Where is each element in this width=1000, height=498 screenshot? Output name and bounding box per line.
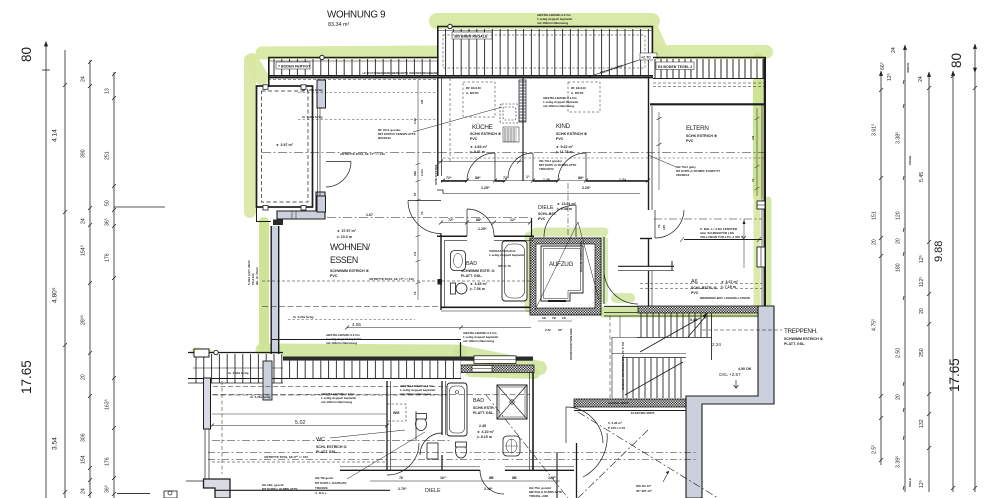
svg-text:1D: 1D xyxy=(562,316,567,320)
svg-text:DIELE: DIELE xyxy=(538,205,554,211)
svg-text:24: 24 xyxy=(81,488,87,494)
svg-text:16⁴: 16⁴ xyxy=(440,476,446,480)
vertical dim chain x=418 xyxy=(416,80,421,300)
corridor mid thin line y=193.5 xyxy=(443,193,640,195)
svg-text:1M: 1M xyxy=(751,135,755,140)
toilet upper xyxy=(451,283,456,294)
svg-text:PVC: PVC xyxy=(686,139,694,143)
door wohnen from corridor xyxy=(408,200,441,202)
svg-text:mit 100mm Dämmung: mit 100mm Dämmung xyxy=(463,339,494,343)
svg-text:MT KOPF-L KARKATE: MT KOPF-L KARKATE xyxy=(315,481,347,485)
svg-text:ANBTE: ANBTE xyxy=(906,63,910,73)
svg-text:SPÜLKASTEN: SPÜLKASTEN xyxy=(433,165,438,185)
svg-text:ORDINA-UNTERSCHETE PF P. PD: ORDINA-UNTERSCHETE PF P. PD xyxy=(621,341,625,390)
svg-text:7b: 7b xyxy=(413,291,417,295)
svg-text:1.36: 1.36 xyxy=(543,178,550,182)
svg-text:3.61⁵: 3.61⁵ xyxy=(872,124,878,136)
svg-text:mit 100mm Dämmung: mit 100mm Dämmung xyxy=(400,392,431,396)
svg-text:24: 24 xyxy=(81,218,87,224)
dim row y481 xyxy=(370,480,560,482)
svg-text:4.75⁵: 4.75⁵ xyxy=(872,319,878,331)
svg-text:8B: 8B xyxy=(489,476,494,480)
svg-text:► 9.62 m²: ► 9.62 m² xyxy=(556,145,574,149)
svg-text:2.29⁵: 2.29⁵ xyxy=(582,186,591,190)
svg-text:176: 176 xyxy=(105,253,111,262)
green top-center strip xyxy=(437,13,652,29)
svg-text:▷ 8.15 m: ▷ 8.15 m xyxy=(476,435,492,439)
left dim line col2 xyxy=(64,50,66,498)
svg-text:1.25⁶: 1.25⁶ xyxy=(478,227,487,231)
svg-text:VOLLZIEHN TÜR-LTG. # 005 ③: VOLLZIEHN TÜR-LTG. # 005 ③ xyxy=(700,234,744,239)
svg-text:5.02: 5.02 xyxy=(295,420,306,426)
df window labels xyxy=(463,82,495,117)
svg-text:I► 3.00a fertig: I► 3.00a fertig xyxy=(250,395,271,399)
landing wall checkered y=400 xyxy=(574,399,687,407)
green strip right of aufzug to treppenhaus xyxy=(604,307,762,318)
door eltern->ab xyxy=(654,210,656,238)
svg-text:163⁵: 163⁵ xyxy=(105,399,111,410)
svg-text:► 4.83 m²: ► 4.83 m² xyxy=(470,145,488,149)
svg-text:24: 24 xyxy=(81,76,87,82)
svg-text:SCHK ESTR.: SCHK ESTR. xyxy=(473,406,495,410)
svg-text:4.14: 4.14 xyxy=(52,129,59,142)
svg-text:7B: 7B xyxy=(552,316,557,320)
svg-text:36⁵: 36⁵ xyxy=(105,485,111,493)
vertical dashed x222 xyxy=(221,381,223,474)
svg-text:GB 7M geshr: GB 7M geshr xyxy=(315,476,334,480)
svg-text:DIELE: DIELE xyxy=(425,488,441,494)
dashed levels lower apartment xyxy=(212,395,530,463)
bad walls upper xyxy=(441,218,533,311)
svg-text:SCHL.BST.: SCHL.BST. xyxy=(538,212,557,216)
svg-text:AUFZUG: AUFZUG xyxy=(549,261,573,268)
washing machine xyxy=(387,404,406,421)
green top-right strip xyxy=(656,45,766,59)
svg-text:PLATT. GSL.: PLATT. GSL. xyxy=(473,411,494,415)
svg-text:I► 3.20a fertig: I► 3.20a fertig xyxy=(293,315,314,319)
svg-text:7 BODEN FERTIGT: 7 BODEN FERTIGT xyxy=(278,65,311,69)
wall kitchen/kind x=523 xyxy=(522,78,524,181)
svg-text:2.26: 2.26 xyxy=(413,118,417,124)
svg-text:12⁵: 12⁵ xyxy=(919,255,925,263)
svg-text:132: 132 xyxy=(919,419,925,428)
south wall living y=339/357 xyxy=(271,339,461,341)
svg-text:72⁵: 72⁵ xyxy=(448,218,454,222)
svg-text:CKL +2.57: CKL +2.57 xyxy=(719,372,741,377)
treppenhaus top wall checkered y=307 xyxy=(638,306,758,313)
svg-text:9.88: 9.88 xyxy=(933,241,945,262)
svg-text:ANTRITTE 35/31, 18•17⁰ == 010: ANTRITTE 35/31, 18•17⁰ == 010 xyxy=(264,455,308,459)
svg-text:▷ 11.78 m: ▷ 11.78 m xyxy=(555,150,573,154)
dashed under strip xyxy=(268,79,437,81)
lower balcony strip xyxy=(188,349,465,400)
svg-text:20: 20 xyxy=(872,239,878,245)
svg-text:154: 154 xyxy=(81,455,87,464)
wall segment right of aufzug xyxy=(603,237,605,270)
svg-text:PVC: PVC xyxy=(538,217,546,221)
svg-text:mit 100mm Dämmung: mit 100mm Dämmung xyxy=(326,341,357,345)
green left balcony edge xyxy=(244,60,256,212)
svg-text:TREPPENH.: TREPPENH. xyxy=(784,328,818,335)
svg-text:1B: 1B xyxy=(542,316,547,320)
cistern square xyxy=(427,443,438,459)
svg-text:160/90/12: 160/90/12 xyxy=(676,173,690,177)
svg-text:1.25⁶: 1.25⁶ xyxy=(481,186,490,190)
post circle xyxy=(320,55,324,59)
kueche fixtures xyxy=(500,104,519,142)
small offshoot line xyxy=(114,206,165,208)
door kind 1 xyxy=(532,153,534,181)
svg-text:180: 180 xyxy=(896,263,902,272)
svg-text:► 3.45 m²: ► 3.45 m² xyxy=(470,282,488,286)
step down wall x=461 xyxy=(460,342,462,357)
svg-text:66⁵: 66⁵ xyxy=(880,62,886,70)
dimension row corridor y=177 xyxy=(446,175,626,190)
bottom wall y=490 xyxy=(215,489,390,491)
ticks xyxy=(63,60,116,496)
svg-text:SCHK ESTRICH ④: SCHK ESTRICH ④ xyxy=(470,131,502,136)
svg-text:4.80⁵: 4.80⁵ xyxy=(52,287,59,303)
svg-text:50: 50 xyxy=(413,192,417,196)
green around AUFZUG xyxy=(525,236,534,308)
window symbols east wall xyxy=(757,201,765,209)
svg-text:24: 24 xyxy=(891,47,897,53)
svg-text:12⁹: 12⁹ xyxy=(510,218,516,222)
svg-text:112⁵: 112⁵ xyxy=(919,277,925,287)
svg-text:▷ 9.48 m: ▷ 9.48 m xyxy=(556,207,572,211)
window in south wall xyxy=(474,356,516,364)
svg-text:20: 20 xyxy=(81,374,87,380)
svg-text:SCHK ESTRICH ④: SCHK ESTRICH ④ xyxy=(556,131,588,136)
svg-text:151: 151 xyxy=(872,211,878,220)
svg-text:80: 80 xyxy=(949,53,964,68)
svg-text:72⁵: 72⁵ xyxy=(446,176,452,180)
svg-text:390: 390 xyxy=(81,149,87,158)
svg-text:A. ROTO: A. ROTO xyxy=(466,91,479,95)
terrace strip top-center xyxy=(437,24,657,78)
svg-text:+2.70 FUSSBODENOBERKANTE GRENZ: +2.70 FUSSBODENOBERKANTE GRENZE WOHNANLA… xyxy=(362,71,445,75)
svg-text:17.65: 17.65 xyxy=(19,360,34,394)
svg-text:ANTRITTE 35/31, 18• 17⁰ == 010: ANTRITTE 35/31, 18• 17⁰ == 010 xyxy=(369,277,414,281)
svg-text:PVC: PVC xyxy=(556,137,564,141)
svg-text:SCHK ESTRICH ④: SCHK ESTRICH ④ xyxy=(686,133,718,138)
second diagonal xyxy=(578,430,648,498)
svg-text:TRO/30/72: TRO/30/72 xyxy=(539,167,554,171)
svg-text:176: 176 xyxy=(105,457,111,466)
svg-text:PLATT. GSL.: PLATT. GSL. xyxy=(784,342,805,346)
svg-text:+2.TC: +2.TC xyxy=(641,56,651,60)
svg-text:ELTERN: ELTERN xyxy=(686,125,709,132)
svg-text:DF 94x140: DF 94x140 xyxy=(571,86,586,90)
small fixture bottom-left xyxy=(164,491,177,498)
svg-text:83.34 m²: 83.34 m² xyxy=(328,22,349,28)
svg-text:WOHNUNG 9: WOHNUNG 9 xyxy=(327,10,385,21)
svg-text:mit 100mm Dämmung: mit 100mm Dämmung xyxy=(543,104,574,108)
svg-text:PVC: PVC xyxy=(330,274,338,278)
svg-text:1.67: 1.67 xyxy=(366,213,373,217)
corridor bottom wall y=236 xyxy=(437,235,534,237)
svg-text:20: 20 xyxy=(896,238,902,244)
svg-text:KICHE: KICHE xyxy=(908,156,912,165)
svg-text:P 316 o 2.45: P 316 o 2.45 xyxy=(608,426,625,430)
svg-text:E3 BODEN TEGEL 2: E3 BODEN TEGEL 2 xyxy=(658,65,692,69)
svg-text:mit 100mm Dämmung: mit 100mm Dämmung xyxy=(321,400,352,404)
svg-text:BO/30/12: BO/30/12 xyxy=(378,136,391,140)
svg-text:5.48: 5.48 xyxy=(690,318,697,322)
svg-text:50: 50 xyxy=(105,200,111,206)
green bottom of living xyxy=(262,350,460,351)
dim 5.02 line xyxy=(212,425,387,427)
svg-text:MT KOPP-L RUMPLATTE: MT KOPP-L RUMPLATTE xyxy=(262,487,298,491)
svg-text:20: 20 xyxy=(896,394,902,400)
svg-text:4.90 OK: 4.90 OK xyxy=(738,367,752,371)
svg-text:ESSEN: ESSEN xyxy=(330,255,358,265)
svg-text:2.2m: 2.2m xyxy=(420,169,424,176)
svg-text:► 37.97 m²: ► 37.97 m² xyxy=(337,229,357,233)
balcony top-left xyxy=(257,85,313,210)
eltern annotations xyxy=(648,155,676,167)
svg-text:18b: 18b xyxy=(413,171,417,176)
svg-text:7b: 7b xyxy=(657,224,661,228)
svg-text:WM: WM xyxy=(393,411,399,415)
left dim line 17.65 xyxy=(45,42,47,498)
double dash-dot section line xyxy=(208,452,698,454)
diagonal annotation in strip xyxy=(585,57,648,78)
eltern south wall y=239.5 xyxy=(680,219,762,268)
svg-text:88⁶: 88⁶ xyxy=(475,176,481,180)
svg-text:88⁶: 88⁶ xyxy=(578,176,584,180)
svg-text:24: 24 xyxy=(918,76,924,82)
svg-text:2.19⁵: 2.19⁵ xyxy=(484,487,493,491)
svg-text:I► 3.20a fertig: I► 3.20a fertig xyxy=(302,115,323,119)
svg-text:KÜCHE: KÜCHE xyxy=(472,123,493,131)
stairs upper flight xyxy=(637,313,712,360)
svg-text:► 3L0 s: ► 3L0 s xyxy=(315,491,327,495)
toilet lower xyxy=(456,444,467,458)
long diagonal line bottom xyxy=(578,412,718,498)
door kind 2 xyxy=(585,153,587,181)
green top-left strip xyxy=(262,52,437,53)
svg-text:5.45: 5.45 xyxy=(919,172,925,182)
north wall right y=104 xyxy=(650,103,766,105)
svg-text:13: 13 xyxy=(105,88,111,94)
wall above lower bad (checkered) xyxy=(461,365,534,373)
svg-text:30⁵ WS 10⁵: 30⁵ WS 10⁵ xyxy=(636,489,653,493)
svg-text:► 13.61 m²: ► 13.61 m² xyxy=(557,202,577,206)
svg-text:80: 80 xyxy=(19,47,34,62)
svg-text:251: 251 xyxy=(105,151,111,160)
svg-text:2.32: 2.32 xyxy=(545,328,551,332)
corridor top wall y=181 xyxy=(441,180,648,182)
shaft ladder strip in kitchen/kind wall xyxy=(519,80,526,122)
svg-text:7b: 7b xyxy=(420,211,424,215)
svg-text:SCHL ESTRICH ①: SCHL ESTRICH ① xyxy=(316,444,347,449)
svg-text:HEIZKO-VERT.: HEIZKO-VERT. xyxy=(608,401,629,405)
svg-text:ELEKTRO-VERT.: ELEKTRO-VERT. xyxy=(631,411,655,415)
leader ge29 xyxy=(347,432,425,479)
svg-text:NACHE ENMEDELNG: NACHE ENMEDELNG xyxy=(579,241,583,272)
svg-text:A. ROTO: A. ROTO xyxy=(571,91,584,95)
dimension row 2 y=228 xyxy=(448,218,516,231)
north wall main y=77 xyxy=(268,76,653,78)
svg-text:5- 2.96 m²: 5- 2.96 m² xyxy=(608,421,622,425)
svg-text:BAD: BAD xyxy=(473,398,484,404)
svg-text:I► 3.20a fertig: I► 3.20a fertig xyxy=(302,88,323,92)
svg-text:▷ 7.06 m: ▷ 7.06 m xyxy=(469,287,485,291)
wall y=470 xyxy=(340,469,480,471)
svg-text:154⁵: 154⁵ xyxy=(81,245,87,256)
lower apartment interior walls xyxy=(215,372,574,490)
svg-text:306: 306 xyxy=(81,433,87,442)
svg-text:TRO30a +038: TRO30a +038 xyxy=(529,494,548,498)
svg-text:20: 20 xyxy=(919,308,925,314)
toilet wc xyxy=(416,418,427,431)
gray section wall right (stairwell) xyxy=(686,306,774,498)
svg-text:SW H: 7b: SW H: 7b xyxy=(498,264,511,268)
svg-text:KIND: KIND xyxy=(556,123,571,130)
wall pieces right of balcony xyxy=(317,80,326,108)
svg-text:▷ 19.3 m: ▷ 19.3 m xyxy=(336,235,352,239)
svg-text:1.34: 1.34 xyxy=(619,178,626,182)
svg-text:7b: 7b xyxy=(751,178,755,182)
svg-text:2.5⁵: 2.5⁵ xyxy=(872,445,878,454)
svg-text:PLATT. GSL.: PLATT. GSL. xyxy=(461,274,482,278)
sink lower xyxy=(503,436,520,456)
stairs lower flight xyxy=(623,357,686,398)
svg-text:22⁹: 22⁹ xyxy=(558,328,563,332)
left dim col4 xyxy=(113,72,115,498)
svg-text:17.65: 17.65 xyxy=(947,358,962,392)
sink upper xyxy=(451,251,466,271)
wall wc west x=387 xyxy=(386,381,388,470)
svg-text:TRO30/G: TRO30/G xyxy=(315,486,329,490)
svg-text:DF 94x140: DF 94x140 xyxy=(466,86,481,90)
svg-text:120: 120 xyxy=(896,211,902,220)
bathtub upper xyxy=(502,241,527,301)
svg-text:▷ 9.81 m: ▷ 9.81 m xyxy=(469,150,485,154)
svg-text:1M: 1M xyxy=(420,99,424,104)
svg-text:1 seitig doppelt beplankt: 1 seitig doppelt beplankt xyxy=(489,253,524,257)
svg-text:KONSTRUKTION-OBK: KONSTRUKTION-OBK xyxy=(569,327,573,360)
svg-text:WS 30/ 10⁵: WS 30/ 10⁵ xyxy=(636,484,652,488)
svg-text:3.54: 3.54 xyxy=(52,437,59,450)
svg-text:BAD: BAD xyxy=(466,261,477,267)
svg-text:SCHL.BSTR. ④: SCHL.BSTR. ④ xyxy=(691,285,718,290)
svg-text:► 4.10 m²: ► 4.10 m² xyxy=(477,430,495,434)
svg-text:► 3.97 m²: ► 3.97 m² xyxy=(276,143,294,147)
bathtub lower xyxy=(447,383,467,436)
svg-text:1⁵: 1⁵ xyxy=(526,175,530,179)
green right wall xyxy=(753,58,763,196)
svg-text:3.38⁵: 3.38⁵ xyxy=(896,132,902,144)
west wall of living xyxy=(257,205,279,357)
door arc diele->treppenh area xyxy=(604,270,638,304)
left dim col3 xyxy=(89,60,91,498)
svg-text:12⁵: 12⁵ xyxy=(887,73,893,81)
svg-text:WOHNEN/: WOHNEN/ xyxy=(330,242,371,252)
svg-text:mit 100mm Dämmung: mit 100mm Dämmung xyxy=(537,21,568,25)
svg-text:2.79⁵: 2.79⁵ xyxy=(398,487,407,491)
wall bad east x=533 xyxy=(532,372,534,470)
svg-text:2.24: 2.24 xyxy=(712,342,721,347)
stair landing area lines xyxy=(610,316,702,470)
svg-text:ANTRITTE 35/31, 18• 17⁰ == 010: ANTRITTE 35/31, 18• 17⁰ == 010 xyxy=(340,152,385,156)
svg-text:HE. d= 30cm: HE. d= 30cm xyxy=(255,267,259,285)
svg-text:SCHWIMM ESTR. ①: SCHWIMM ESTR. ① xyxy=(461,268,496,273)
svg-text:4.55: 4.55 xyxy=(352,322,361,327)
wall wc/bad x=442 xyxy=(441,381,443,435)
shower lower (dark square) xyxy=(497,385,527,419)
vertical text left wall xyxy=(247,165,666,285)
svg-text:SCHWIMM ESTRICH ④: SCHWIMM ESTRICH ④ xyxy=(330,268,370,273)
svg-text:36⁵: 36⁵ xyxy=(105,218,111,226)
svg-text:I► 3.00a fertig: I► 3.00a fertig xyxy=(228,371,249,375)
svg-text:PVC: PVC xyxy=(691,291,699,295)
svg-text:2.50: 2.50 xyxy=(896,348,902,358)
svg-text:2.45: 2.45 xyxy=(479,424,486,428)
4.55 dim row wohnen xyxy=(347,327,531,329)
interior wall kitchen west x=439 xyxy=(438,78,442,176)
L-wall below balcony (gray) xyxy=(273,80,351,225)
door bad upper xyxy=(466,209,468,236)
svg-text:3.39⁵: 3.39⁵ xyxy=(896,456,902,468)
terrace strip top-right xyxy=(653,58,766,87)
svg-text:NIEDERBO-BST. LEGEND-LAYBOK: NIEDERBO-BST. LEGEND-LAYBOK xyxy=(700,296,751,300)
svg-text:WC: WC xyxy=(316,437,325,443)
treppenhaus label xyxy=(702,328,824,346)
svg-text:12⁵: 12⁵ xyxy=(919,480,925,488)
svg-text:76: 76 xyxy=(399,476,403,480)
wall ab bottom partial xyxy=(618,265,674,267)
svg-text:PVC: PVC xyxy=(470,137,478,141)
svg-text:SCHWIMM ESTRICH ①: SCHWIMM ESTRICH ① xyxy=(784,336,824,341)
aufzug shaft xyxy=(530,222,601,315)
door arcs lower xyxy=(387,407,607,498)
lower west wall xyxy=(204,378,231,498)
aufzug cabin xyxy=(541,246,583,301)
svg-text:A6: A6 xyxy=(691,279,698,285)
balcony door leaf+arc xyxy=(326,161,351,163)
east wall x=765 xyxy=(764,57,766,311)
svg-text:88⁶: 88⁶ xyxy=(476,218,482,222)
door kueche: leaf+arc xyxy=(408,153,684,238)
svg-text:28⁹⁵: 28⁹⁵ xyxy=(81,315,87,325)
terrace strip top-left xyxy=(268,55,445,87)
svg-text:PLATT. GSL.: PLATT. GSL. xyxy=(316,450,337,454)
svg-text:2.6: 2.6 xyxy=(413,251,417,256)
wall kind/eltern x=650 xyxy=(640,78,652,306)
svg-text:DIELE: DIELE xyxy=(908,478,912,487)
svg-text:125: 125 xyxy=(662,225,666,230)
svg-text:250: 250 xyxy=(919,348,925,357)
svg-text:8B: 8B xyxy=(512,476,517,480)
door near aufzug xyxy=(575,205,577,237)
